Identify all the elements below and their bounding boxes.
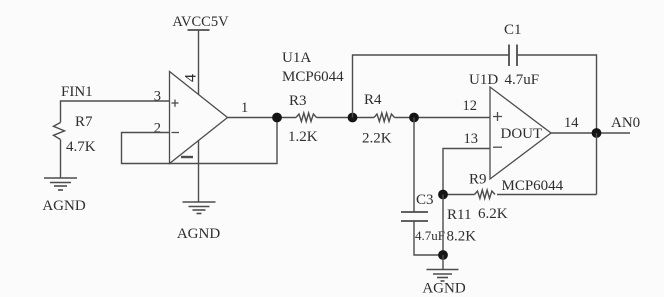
wire R3 to R4: [317, 117, 375, 119]
svg-text:FIN1: FIN1: [61, 84, 93, 100]
svg-text:AGND: AGND: [177, 226, 220, 242]
wire C1 branch up from node: [353, 55, 510, 118]
wire C1 to output node: [517, 55, 597, 133]
ground AGND left: [42, 178, 85, 214]
resistor R3: [288, 93, 318, 145]
wire R9 to pin13 node: [443, 194, 475, 196]
capacitor C1: [504, 22, 522, 66]
wire C3 branch down: [413, 118, 415, 213]
wire U1A output to R3: [228, 117, 297, 119]
svg-text:2: 2: [154, 121, 161, 137]
svg-text:4.7uF: 4.7uF: [505, 72, 540, 88]
wire U1D output to AN0: [551, 132, 630, 134]
ground AGND below U1A: [177, 202, 220, 242]
resistor R11: [443, 195, 476, 256]
svg-text:C1: C1: [504, 22, 522, 38]
wire output node down to R9: [596, 133, 598, 195]
wire feedback U1A output to pin2: [122, 118, 278, 164]
wire C3 to ground node: [414, 221, 443, 255]
svg-text:C3: C3: [416, 192, 434, 208]
power AVCC5V: [172, 14, 229, 95]
svg-text:U1A: U1A: [282, 50, 311, 66]
wire R7 to ground: [60, 140, 62, 179]
svg-text:14: 14: [564, 115, 579, 131]
svg-text:4: 4: [183, 74, 200, 82]
svg-text:AGND: AGND: [422, 281, 465, 297]
op-amp U1D: [490, 87, 551, 179]
svg-text:R3: R3: [289, 93, 307, 109]
capacitor C3: [401, 192, 445, 243]
wire node to ground: [442, 255, 444, 270]
svg-text:MCP6044: MCP6044: [502, 178, 564, 194]
junction node after pin 1: [272, 113, 282, 123]
svg-text:3: 3: [154, 89, 161, 105]
svg-text:1: 1: [241, 100, 248, 116]
wire R9 right segment: [497, 194, 597, 196]
wire R4 to pin 12: [395, 117, 491, 119]
svg-text:R11: R11: [447, 207, 471, 223]
svg-text:12: 12: [463, 98, 478, 114]
svg-text:DOUT: DOUT: [501, 126, 543, 142]
svg-text:R4: R4: [364, 92, 382, 108]
svg-text:AVCC5V: AVCC5V: [172, 14, 229, 30]
junction node R3/R4/C1: [348, 113, 358, 123]
V- marker on U1A: [181, 156, 193, 158]
op-amp U1A: [170, 72, 228, 164]
svg-text:13: 13: [464, 131, 479, 147]
svg-text:R9: R9: [469, 172, 487, 188]
svg-text:4.7uF: 4.7uF: [415, 228, 445, 243]
ground AGND right: [422, 270, 465, 297]
resistor R4: [362, 92, 394, 147]
svg-text:AN0: AN0: [611, 115, 640, 131]
junction node pin13/R9/R11: [438, 190, 448, 200]
svg-text:R7: R7: [75, 114, 93, 130]
svg-text:1.2K: 1.2K: [288, 129, 318, 145]
svg-text:6.2K: 6.2K: [478, 206, 508, 222]
wire pin 13: [443, 149, 490, 195]
junction node R4/C3: [409, 113, 419, 123]
junction node output: [592, 128, 602, 138]
svg-text:MCP6044: MCP6044: [282, 69, 344, 85]
resistor R7: [54, 114, 96, 155]
wire U1A V- to ground: [198, 141, 200, 203]
wire FIN1 to pin3: [61, 101, 170, 123]
svg-text:U1D: U1D: [469, 72, 498, 88]
svg-text:4.7K: 4.7K: [66, 139, 96, 155]
svg-text:2.2K: 2.2K: [362, 131, 392, 147]
svg-text:AGND: AGND: [42, 198, 85, 214]
resistor R9: [469, 172, 508, 223]
junction node ground: [438, 250, 448, 260]
svg-text:8.2K: 8.2K: [447, 229, 477, 245]
